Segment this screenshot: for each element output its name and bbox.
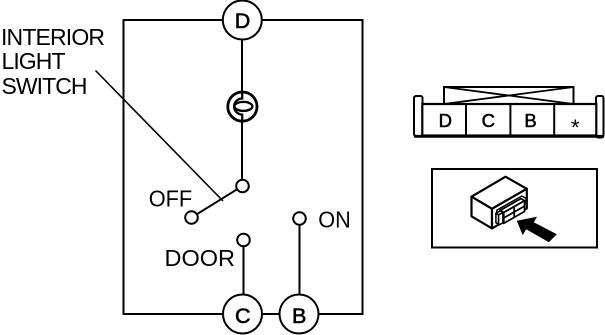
svg-text:INTERIOR: INTERIOR <box>1 24 105 50</box>
wire: DOOR contact to terminal C <box>243 246 245 296</box>
svg-text:D: D <box>235 9 251 33</box>
wire: lamp to common contact <box>241 121 243 181</box>
connector pinout: body <box>422 104 596 136</box>
relay/switch unit icon (3D box) <box>472 177 527 229</box>
svg-text:OFF: OFF <box>149 186 193 212</box>
terminal block on icon <box>496 199 525 225</box>
wire: terminal D to lamp <box>241 20 243 92</box>
terminal grid lines <box>504 206 525 218</box>
svg-text:ON: ON <box>318 206 351 232</box>
svg-text:C: C <box>235 304 251 328</box>
lamp L1 (interior light bulb) <box>228 92 257 121</box>
leader line from label to switch lever <box>96 71 224 202</box>
left face <box>472 197 493 229</box>
svg-text:*: * <box>571 115 580 140</box>
terminal D <box>223 1 262 40</box>
switch lever <box>197 189 237 214</box>
right face <box>492 189 527 229</box>
connector pinout: cavity dividers <box>466 104 554 136</box>
contact OFF <box>185 211 198 224</box>
block left face <box>500 210 504 223</box>
common contact (pivot node) <box>236 180 249 193</box>
lock step at lower left <box>496 211 503 215</box>
block front face <box>504 201 525 224</box>
svg-text:DOOR: DOOR <box>165 245 236 271</box>
terminal C <box>223 295 262 334</box>
contact ON <box>293 212 306 225</box>
wire: ON contact to terminal B <box>299 225 301 296</box>
connector recess outline on icon <box>496 196 526 217</box>
connector pinout: left ear <box>414 96 423 136</box>
svg-text:D: D <box>439 110 452 131</box>
connector pinout: thick bottom edge <box>414 135 604 138</box>
svg-text:SWITCH: SWITCH <box>2 73 88 99</box>
svg-text:LIGHT: LIGHT <box>2 48 66 74</box>
location icon frame <box>432 169 597 248</box>
connector pinout: right ear <box>596 96 604 138</box>
block top face <box>500 199 524 213</box>
label INTERIOR LIGHT SWITCH <box>1 24 105 99</box>
connector pinout: lock tab with X <box>444 87 574 104</box>
svg-text:C: C <box>482 110 495 131</box>
svg-text:B: B <box>292 304 306 328</box>
switch body outline <box>124 20 363 314</box>
contact DOOR <box>237 234 250 247</box>
top face <box>472 177 527 209</box>
terminal B <box>280 295 319 334</box>
arrow pointing at unit <box>517 217 557 242</box>
svg-text:B: B <box>524 110 536 131</box>
